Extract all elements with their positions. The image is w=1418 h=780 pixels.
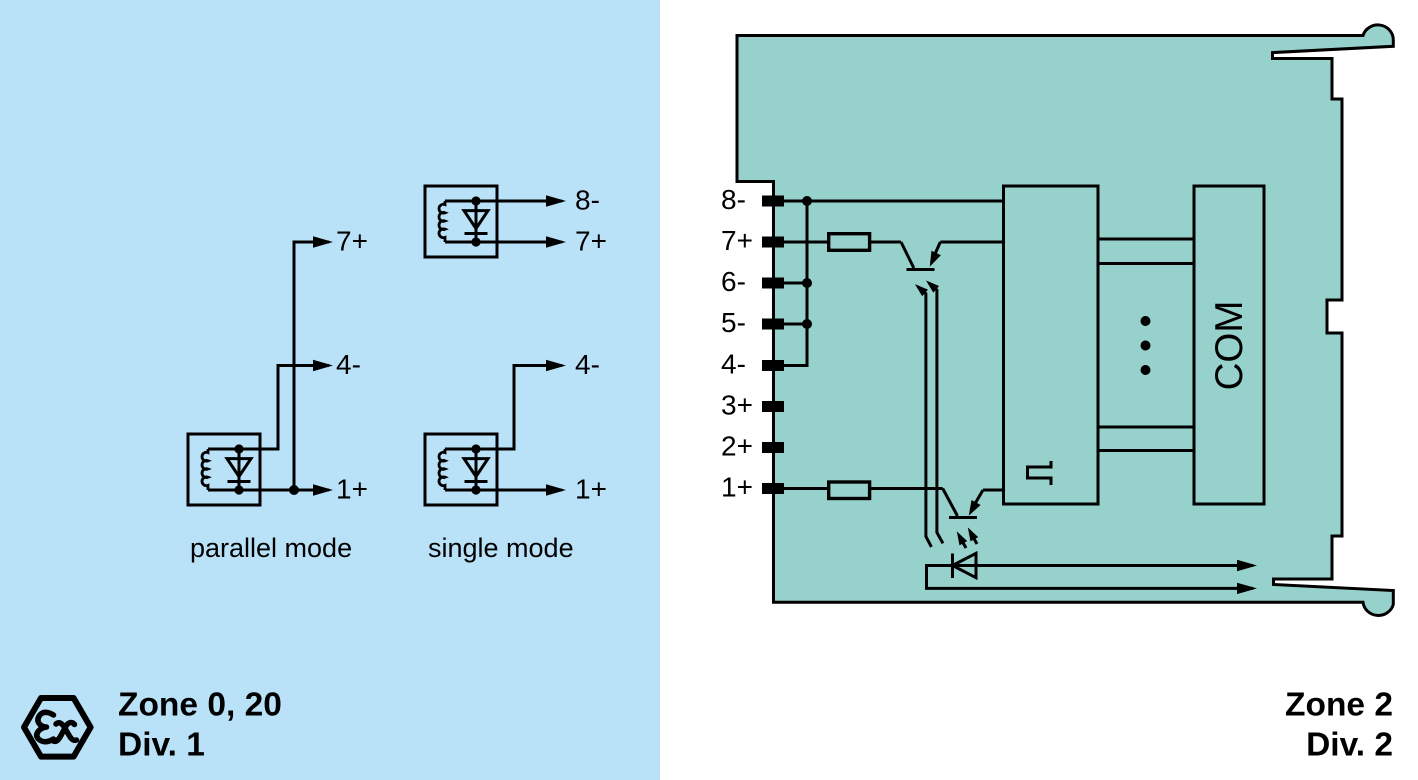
junction node bus/5-: [802, 319, 812, 329]
wire stub 5-: [784, 323, 807, 326]
terminal 8- block: [762, 196, 784, 207]
svg-text:8-: 8-: [575, 185, 600, 216]
svg-text:COM: COM: [1208, 301, 1251, 391]
transistor Q1 (photo transistor): [901, 242, 941, 270]
svg-text:single mode: single mode: [428, 533, 574, 563]
opto light arrow L1 (long): [912, 281, 931, 547]
svg-text:4-: 4-: [721, 349, 746, 380]
wire: junction up to 7+ arrow: [294, 242, 329, 490]
arrow 8- (single top): [546, 195, 566, 206]
isolation link lower pair: [1098, 427, 1194, 451]
terminal 6- block: [762, 278, 784, 289]
arrow 4- (parallel): [313, 360, 333, 371]
svg-text:5-: 5-: [721, 307, 746, 338]
svg-text:8-: 8-: [721, 184, 746, 215]
svg-text:4-: 4-: [336, 349, 361, 380]
junction node bus/8-: [802, 196, 812, 206]
pulse symbol inside U1: [1028, 461, 1052, 485]
wire: resistor R2 to transistor Q2: [870, 487, 943, 490]
terminal 1+ block: [762, 483, 784, 494]
svg-text:Div. 2: Div. 2: [1306, 727, 1393, 764]
wire: resistor R1 to transistor Q1: [870, 241, 901, 244]
svg-text:Zone 0, 20: Zone 0, 20: [118, 687, 282, 724]
arrow 4- (single): [546, 360, 566, 371]
solenoid valve V3 (single mode, bottom): [425, 434, 497, 505]
transistor Q2: [943, 489, 983, 519]
ellipsis dots between blocks: [1141, 316, 1151, 375]
resistor R1: [829, 234, 870, 251]
wire: valve V1 top node to 4- arrow: [260, 366, 329, 450]
arrow 7+ (parallel): [313, 236, 333, 247]
wire: LED return lower arrow: [927, 566, 1254, 589]
terminal 2+ block: [762, 442, 784, 453]
bus: 4- up to 8- row: [784, 201, 807, 366]
arrow 7+ (single top): [546, 236, 566, 247]
wire: transistor Q2 to amplifier block: [983, 489, 1004, 492]
wire: valve V3 bottom node to 1+ arrow: [497, 489, 562, 492]
wire: LED output upper arrow: [953, 564, 1254, 567]
Ex hexagon logo: [24, 698, 91, 757]
svg-text:4-: 4-: [575, 349, 600, 380]
opto light arrow L2 (long): [923, 277, 943, 543]
arrow lower LED line: [1237, 583, 1257, 594]
solenoid valve V2 (single mode, top): [425, 186, 497, 257]
svg-text:parallel mode: parallel mode: [190, 533, 352, 563]
wire: transistor Q1 to amplifier block: [940, 241, 1003, 244]
terminal 5- block: [762, 319, 784, 330]
wire: terminal 1+ to resistor R2: [784, 487, 828, 490]
LED D1 (fault indication): [953, 553, 977, 578]
terminal 4- block: [762, 360, 784, 371]
solenoid valve V1 (parallel mode): [188, 434, 260, 505]
svg-text:7+: 7+: [721, 225, 753, 256]
wire stub 6-: [784, 282, 807, 285]
wire: valve V3 top node to 4- arrow: [497, 366, 562, 450]
wire: terminal 8- to amplifier block: [784, 200, 1004, 203]
module housing outline: [737, 25, 1393, 615]
svg-text:3+: 3+: [721, 390, 753, 421]
hazardous area background panel (Zone 0): [0, 0, 660, 780]
LED light arrow L4 (short): [964, 525, 978, 544]
terminal 3+ block: [762, 401, 784, 412]
wire: valve V2 bottom node to 7+ arrow: [497, 241, 562, 244]
LED light arrow L3 (short): [953, 529, 967, 548]
junction node (parallel 1+): [289, 485, 299, 495]
arrow 1+ (parallel): [313, 484, 333, 495]
wire: terminal 7+ to resistor R1: [784, 241, 828, 244]
svg-text:6-: 6-: [721, 266, 746, 297]
svg-text:7+: 7+: [575, 226, 607, 257]
wire: valve V2 top node to 8- arrow: [497, 200, 562, 203]
isolation link upper pair: [1098, 239, 1194, 264]
svg-text:Zone 2: Zone 2: [1285, 687, 1393, 724]
svg-text:1+: 1+: [575, 474, 607, 505]
arrow 1+ (single): [546, 484, 566, 495]
COM block U2: [1194, 186, 1264, 504]
terminal 7+ block: [762, 237, 784, 248]
arrow upper LED line: [1237, 560, 1257, 571]
svg-text:Div. 1: Div. 1: [118, 727, 205, 764]
svg-text:1+: 1+: [721, 472, 753, 503]
wire: valve V1 bottom node to 1+ arrow: [260, 489, 329, 492]
svg-text:2+: 2+: [721, 431, 753, 462]
resistor R2: [829, 482, 870, 499]
svg-text:7+: 7+: [336, 226, 368, 257]
junction node bus/6-: [802, 278, 812, 288]
svg-text:1+: 1+: [336, 474, 368, 505]
amplifier block U1: [1004, 186, 1099, 504]
